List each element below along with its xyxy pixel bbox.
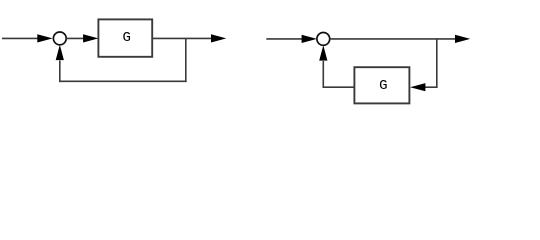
wire output right — [330, 38, 456, 40]
wire junction to block G — [66, 37, 84, 39]
arrowhead into summing junction bottom right (points up) — [319, 45, 327, 60]
block G (feedback path) — [354, 67, 409, 103]
svg-text:G: G — [122, 30, 130, 46]
node takeoff vertical wire right — [436, 39, 438, 88]
node takeoff vertical wire — [185, 38, 187, 82]
feedback wire out of block left side — [323, 86, 355, 88]
wire block output — [152, 37, 211, 39]
arrowhead into summing junction (points right) — [37, 34, 52, 42]
arrowhead into summing junction (points right) — [302, 35, 317, 43]
feedback wire into block right side — [425, 86, 438, 88]
svg-text:G: G — [379, 78, 387, 94]
feedback bottom wire — [59, 80, 187, 82]
arrowhead into block G (points right) — [83, 34, 98, 42]
block G (forward path) — [98, 19, 152, 56]
arrowhead into block G right edge (points left) — [410, 83, 425, 91]
arrowhead output right (points right) — [455, 35, 470, 43]
wire input right — [266, 38, 302, 40]
arrowhead into summing junction bottom (points up) — [56, 45, 64, 60]
summing junction circle right — [317, 33, 330, 46]
feedback rising wire right diagram — [322, 61, 324, 88]
arrowhead output (points right) — [211, 34, 226, 42]
summing junction circle — [53, 32, 66, 45]
feedback rising wire — [59, 61, 61, 83]
wire input left — [2, 37, 39, 39]
